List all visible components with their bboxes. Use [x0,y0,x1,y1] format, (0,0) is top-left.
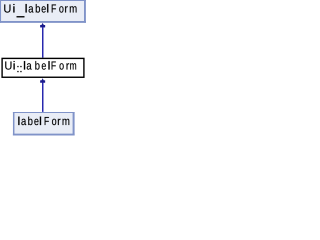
label labelForm [18,117,69,126]
inheritance arrow: Ui::labelForm to Ui_labelForm [40,23,45,58]
inheritance arrow: labelForm to Ui::labelForm [40,78,45,112]
label Ui_labelForm [4,4,76,17]
label Ui::labelForm [5,61,76,72]
background [0,0,86,136]
class box Ui::labelForm [2,58,84,77]
class box Ui_labelForm [0,0,86,23]
class box labelForm [13,112,75,135]
